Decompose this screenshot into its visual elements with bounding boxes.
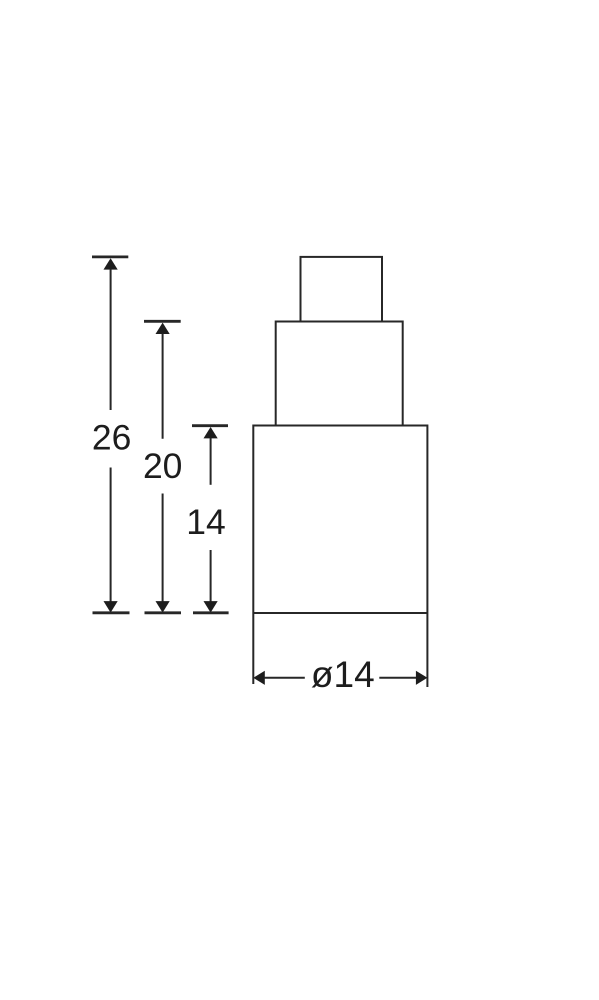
dimension 20: top tick: [144, 320, 181, 323]
body outline: main cylinder right side and extension line: [426, 425, 428, 688]
dimension ø14: left arrow: [253, 671, 264, 685]
dimension 26: lower line segment: [110, 468, 112, 602]
svg-text:20: 20: [143, 446, 183, 486]
dimension 20: bottom tick: [145, 611, 182, 614]
dimension 26: bottom arrow: [104, 601, 118, 613]
dimension 14: top tick: [192, 424, 228, 427]
body outline: main cylinder top edge: [253, 425, 427, 427]
dimension 26: top tick: [92, 255, 128, 258]
dimension ø14: left line segment: [264, 677, 305, 679]
body outline: top step: [301, 257, 383, 322]
svg-text:ø14: ø14: [311, 654, 375, 695]
body outline: bottom edge: [253, 612, 427, 614]
dimension 26: top arrow: [104, 258, 118, 269]
dimension 20: lower line segment: [162, 494, 164, 602]
dimension ø14: right arrow: [416, 671, 428, 685]
svg-text:26: 26: [92, 418, 132, 458]
svg-text:14: 14: [186, 502, 226, 542]
dimension 20: upper line segment: [162, 334, 164, 439]
dimension ø14: right line segment: [379, 677, 416, 679]
dimension 20: top arrow: [156, 323, 170, 334]
dimension 14: bottom arrow: [204, 601, 218, 613]
dimension 14: top arrow: [204, 427, 218, 438]
dimension 26: upper line segment: [110, 269, 112, 410]
body outline: middle step: [276, 322, 403, 426]
dimension 14: lower line segment: [210, 550, 212, 602]
dimension 14: bottom tick: [193, 611, 229, 614]
dimension 14: upper line segment: [210, 438, 212, 485]
body outline: main cylinder left side and extension line: [252, 425, 254, 685]
dimension 20: bottom arrow: [156, 601, 170, 613]
dimension 26: bottom tick: [93, 611, 130, 614]
